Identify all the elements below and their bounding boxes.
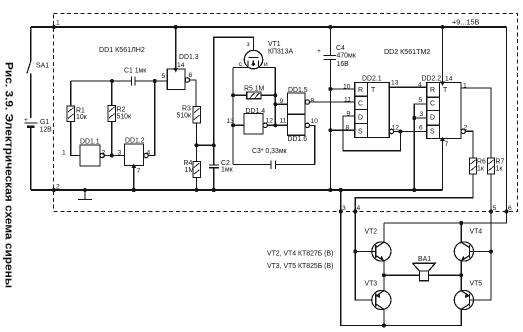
- svg-text:13: 13: [227, 118, 235, 125]
- wire: speaker line between emitter pairs: [382, 273, 463, 277]
- svg-text:BA1: BA1: [418, 256, 431, 263]
- svg-text:5: 5: [419, 97, 423, 104]
- dashed enclosure border: [54, 14, 518, 212]
- svg-text:DD1 К561ЛН2: DD1 К561ЛН2: [99, 46, 145, 54]
- svg-text:VT2, VT4 КТ827Б (В): VT2, VT4 КТ827Б (В): [267, 251, 333, 258]
- svg-text:10: 10: [311, 118, 319, 125]
- wire: node 5 base line VT4/VT5: [470, 212, 494, 301]
- svg-text:DD2.2: DD2.2: [422, 76, 442, 83]
- wire: top horizontal R1-R2-C1: [71, 80, 132, 82]
- svg-text:9: 9: [347, 111, 351, 118]
- wire: node 6 collector supply rail of bridge: [384, 212, 507, 226]
- svg-text:и: и: [264, 61, 268, 68]
- resistor R4: [193, 145, 201, 192]
- node: C1 right / pin5 junction: [153, 79, 157, 83]
- svg-text:D: D: [430, 115, 435, 122]
- resistor R3: [193, 107, 201, 146]
- svg-text:1: 1: [56, 20, 60, 27]
- svg-text:1: 1: [62, 150, 66, 157]
- svg-text:3: 3: [420, 111, 424, 118]
- svg-text:3: 3: [342, 205, 346, 212]
- svg-text:2: 2: [56, 184, 60, 191]
- capacitor C2: [209, 145, 219, 192]
- svg-text:VT3, VT5 КТ825Б (В): VT3, VT5 КТ825Б (В): [267, 263, 333, 270]
- inverter DD1.6: [275, 114, 315, 164]
- svg-text:C3* 0,33мк: C3* 0,33мк: [252, 148, 288, 155]
- svg-text:12: 12: [266, 118, 274, 125]
- wire: node 4 base line VT2/VT3: [353, 212, 376, 301]
- svg-text:510к: 510к: [117, 114, 132, 121]
- wire: DD2.1 S input from C4 line: [328, 128, 354, 132]
- wire: R2 branch vertical: [111, 81, 113, 156]
- svg-text:11: 11: [280, 118, 287, 125]
- inverter DD1.1: [80, 145, 124, 166]
- flip-flop DD2.2: [427, 82, 461, 138]
- svg-text:SA1: SA1: [36, 63, 49, 70]
- wire: DD2.1 R input from C4 line: [328, 87, 354, 91]
- svg-text:10: 10: [343, 84, 351, 91]
- svg-text:6: 6: [189, 72, 193, 79]
- wire: VT1 drain vertical (right): [274, 68, 276, 126]
- svg-text:R3: R3: [182, 106, 191, 113]
- resistor R2: [108, 106, 116, 122]
- svg-text:+: +: [317, 48, 321, 55]
- svg-text:1мк: 1мк: [221, 167, 234, 174]
- battery G1 12В: [25, 123, 38, 190]
- pin 7 of DD1.2: [131, 164, 136, 192]
- svg-text:14: 14: [445, 76, 453, 83]
- svg-text:DD1.3: DD1.3: [179, 54, 199, 61]
- wire: DD2.1 pin 12 output: [389, 129, 426, 133]
- wire: gate line from RC junction to VT1 gate: [214, 37, 254, 145]
- svg-text:8: 8: [311, 98, 315, 105]
- node 5: [489, 210, 493, 214]
- svg-text:6: 6: [419, 125, 423, 132]
- svg-text:3: 3: [118, 150, 122, 157]
- capacitor C1: [132, 77, 155, 86]
- node 4: [353, 210, 357, 214]
- svg-text:+9...15В: +9...15В: [452, 18, 480, 27]
- node 1: [52, 25, 56, 29]
- transistor VT1 КП313А: [233, 50, 275, 68]
- flip-flop DD2.1: [355, 82, 390, 137]
- svg-text:5: 5: [162, 73, 166, 80]
- wire: DD2.1 pin 13 output to DD2.2 R: [389, 86, 426, 88]
- svg-text:13: 13: [391, 80, 399, 87]
- svg-text:VT2: VT2: [365, 229, 378, 236]
- svg-text:VT3: VT3: [365, 281, 378, 288]
- resistor R6: [355, 158, 476, 212]
- svg-text:5: 5: [493, 205, 497, 212]
- speaker BA1: [413, 263, 436, 281]
- svg-text:DD2 К561ТМ2: DD2 К561ТМ2: [384, 48, 430, 56]
- svg-text:11: 11: [344, 97, 351, 104]
- svg-text:R4: R4: [184, 160, 193, 167]
- inverter DD1.2: [124, 81, 154, 166]
- svg-text:7: 7: [137, 168, 141, 175]
- svg-text:1к: 1к: [496, 166, 504, 173]
- wire: DD2.1 D feedback loop to pin 12: [343, 116, 401, 151]
- node 2: [52, 188, 56, 192]
- svg-text:12В: 12В: [40, 127, 53, 134]
- svg-text:9: 9: [280, 98, 284, 105]
- node: R2 bottom on gate wire: [110, 154, 114, 158]
- svg-text:G1: G1: [40, 119, 49, 126]
- svg-text:1: 1: [463, 83, 467, 90]
- svg-text:R6: R6: [477, 159, 486, 166]
- svg-text:DD1.6: DD1.6: [288, 136, 308, 143]
- wire: battery branch top: [30, 27, 32, 61]
- svg-text:VT1: VT1: [268, 41, 281, 48]
- wire: DD2.2 pin 2 output to R6: [461, 129, 473, 158]
- capacitor C3: [233, 160, 315, 169]
- svg-text:6: 6: [508, 205, 512, 212]
- pin 7 of DD2.2: [440, 137, 445, 190]
- svg-text:R5 1М: R5 1М: [244, 86, 265, 93]
- svg-text:2: 2: [464, 125, 468, 132]
- wire: VT1 source vertical (left): [232, 68, 234, 165]
- svg-text:1к: 1к: [477, 166, 485, 173]
- svg-text:C4: C4: [336, 45, 345, 52]
- pin 14 of DD2.2: [440, 25, 445, 86]
- resistor R7: [488, 158, 495, 212]
- node: R2/C1 junction: [110, 79, 114, 83]
- wire: R1 branch vertical: [71, 81, 80, 156]
- resistor R5 1М: [231, 92, 277, 99]
- svg-text:C: C: [358, 101, 363, 108]
- svg-text:Рис. 3.9. Электрическая схема: Рис. 3.9. Электрическая схема сирены: [3, 62, 15, 288]
- capacitor C4: [324, 25, 336, 192]
- svg-text:4: 4: [357, 205, 361, 212]
- svg-text:VT4: VT4: [470, 229, 483, 236]
- transistor VT5: [454, 275, 473, 309]
- svg-text:DD1.5: DD1.5: [288, 87, 308, 94]
- svg-text:470мк: 470мк: [337, 53, 357, 60]
- svg-text:з: з: [247, 41, 250, 48]
- svg-text:2: 2: [102, 150, 106, 157]
- svg-text:R7: R7: [496, 159, 505, 166]
- svg-text:DD2.1: DD2.1: [362, 76, 382, 83]
- wire: R3/R4/C2 junction: [195, 143, 216, 147]
- switch SA1: [27, 61, 31, 118]
- transistor VT4: [454, 223, 473, 275]
- resistor R1: [67, 106, 75, 122]
- wire: DD2.2 pin 1 output to R7: [461, 88, 491, 158]
- wire: ground drop to node 3: [339, 188, 343, 212]
- svg-text:510к: 510к: [177, 113, 192, 120]
- svg-text:DD1.1: DD1.1: [80, 139, 100, 146]
- svg-text:7: 7: [445, 141, 449, 148]
- svg-text:R2: R2: [117, 107, 126, 114]
- svg-text:D: D: [358, 115, 363, 122]
- svg-text:R: R: [358, 87, 363, 94]
- transistor VT3: [372, 275, 391, 327]
- wire: node 3 ground run of output stage: [341, 212, 461, 326]
- svg-text:C1 1мк: C1 1мк: [124, 68, 147, 75]
- node 3: [339, 210, 343, 214]
- svg-text:8: 8: [346, 125, 350, 132]
- pin 14 of DD1.3: [173, 25, 178, 72]
- wire: ground bottom rail: [31, 189, 443, 191]
- svg-text:S: S: [358, 129, 363, 136]
- ground: [78, 188, 92, 200]
- transistor VT2: [372, 223, 391, 275]
- node 6: [505, 210, 509, 214]
- inverter DD1.4: [231, 114, 277, 135]
- svg-text:DD1.4: DD1.4: [246, 108, 266, 115]
- svg-text:R: R: [430, 87, 435, 94]
- svg-text:14: 14: [177, 62, 185, 69]
- svg-text:16В: 16В: [337, 61, 350, 68]
- svg-text:+: +: [24, 117, 28, 124]
- svg-text:12: 12: [392, 125, 400, 132]
- svg-text:10к: 10к: [76, 114, 88, 121]
- svg-text:4: 4: [147, 150, 151, 157]
- svg-text:VT5: VT5: [470, 281, 483, 288]
- svg-text:S: S: [430, 129, 435, 136]
- inverter DD1.5: [273, 93, 354, 114]
- svg-text:КП313А: КП313А: [268, 49, 293, 56]
- svg-text:C: C: [430, 101, 435, 108]
- wire: DD2.2 C input riser to D: [412, 104, 426, 192]
- svg-text:4: 4: [418, 82, 422, 89]
- wire: +V top rail: [31, 26, 507, 28]
- inverter DD1.3: [155, 69, 196, 107]
- wire: right supply drop from rail to node 6: [506, 27, 508, 212]
- svg-text:1М: 1М: [185, 167, 195, 174]
- svg-text:DD1.2: DD1.2: [125, 138, 145, 145]
